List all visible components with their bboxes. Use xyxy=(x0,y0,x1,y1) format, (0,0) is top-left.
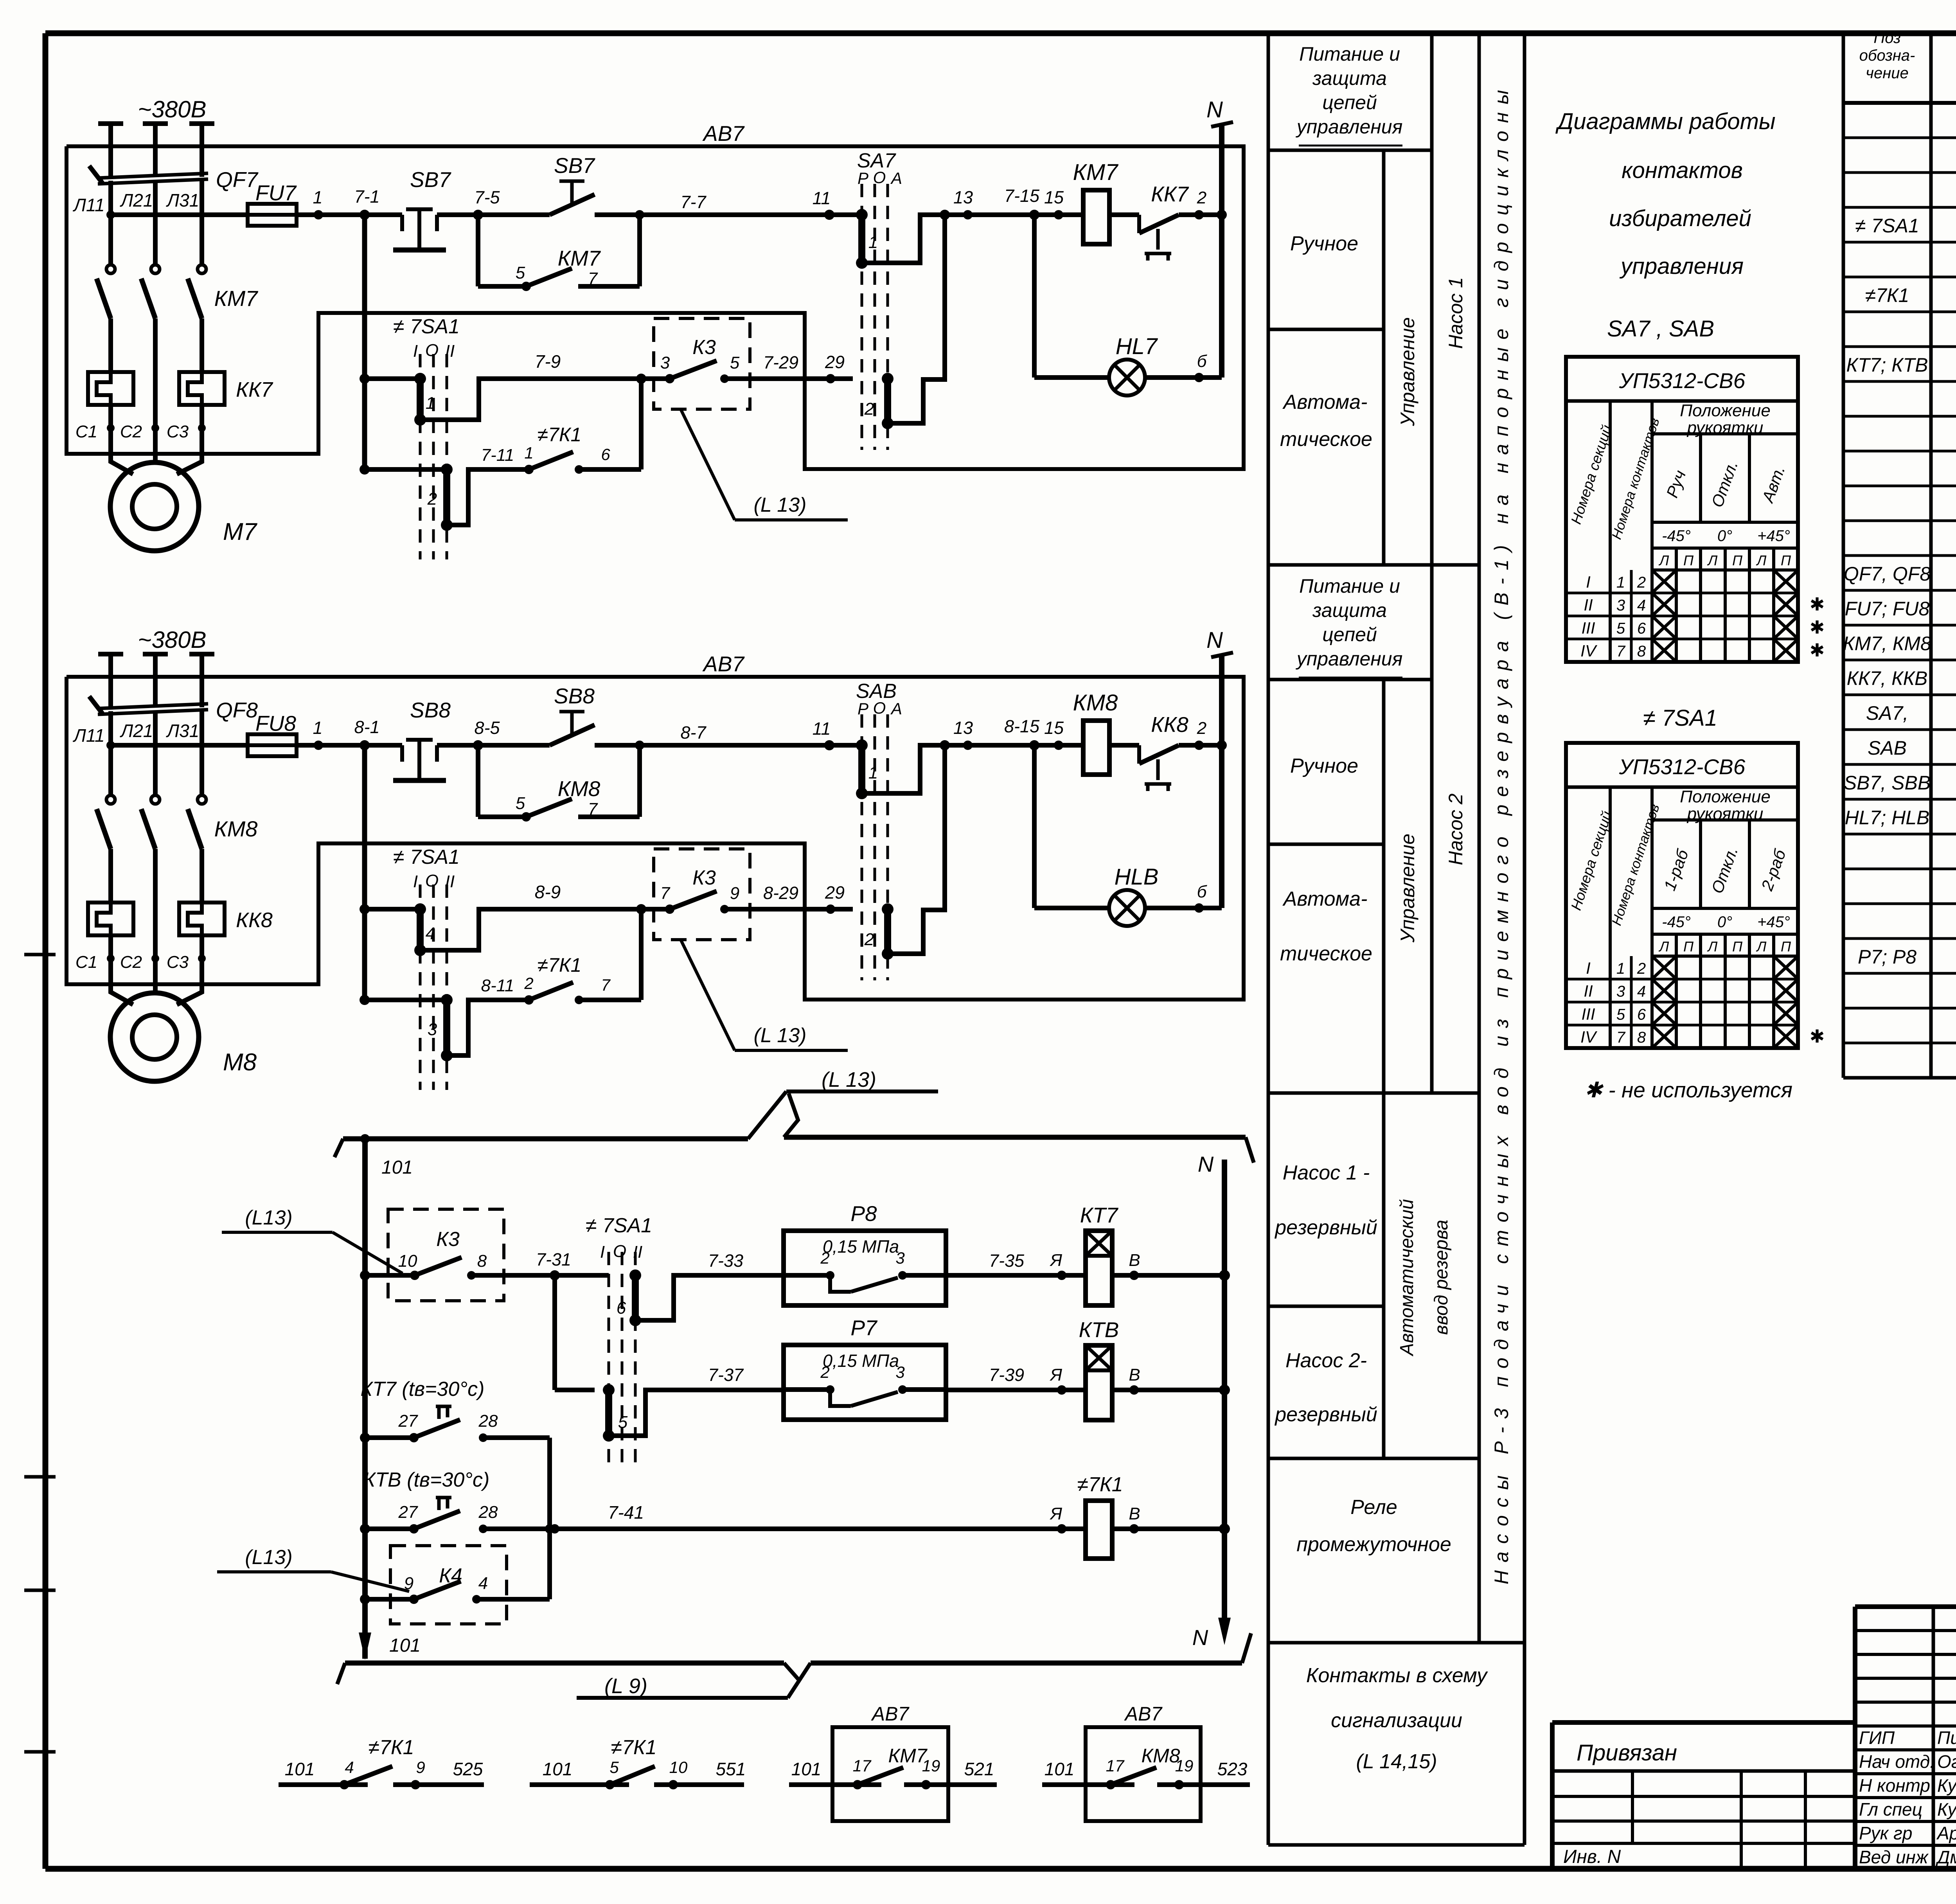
svg-text:Дмитриева: Дмитриева xyxy=(1935,1847,1956,1867)
svg-text:17: 17 xyxy=(1106,1757,1125,1775)
svg-text:✱: ✱ xyxy=(1810,640,1825,660)
trunk 8-1 down xyxy=(362,745,367,1000)
thermal relay heaters КК8 xyxy=(88,903,133,935)
svg-text:АВ7: АВ7 xyxy=(1124,1703,1163,1725)
wire 7-41 to relay 7K1 xyxy=(550,1524,559,1534)
svg-text:ввод резерва: ввод резерва xyxy=(1431,1220,1452,1335)
svg-text:SА7 , SАВ: SА7 , SАВ xyxy=(1607,316,1714,342)
7SA1 contact upper (4) xyxy=(365,907,420,912)
svg-text:б: б xyxy=(1197,882,1208,901)
junction node 13 area xyxy=(940,740,950,750)
svg-text:цепей: цепей xyxy=(1322,624,1377,645)
svg-text:7: 7 xyxy=(1616,643,1626,660)
svg-text:КМ8: КМ8 xyxy=(558,777,600,801)
svg-text:1: 1 xyxy=(868,763,878,782)
svg-text:Инв. N: Инв. N xyxy=(1563,1846,1621,1867)
svg-text:Диаграммы работы: Диаграммы работы xyxy=(1555,109,1775,134)
signal lamp HL7 xyxy=(1034,375,1109,380)
svg-text:КК8: КК8 xyxy=(236,908,273,932)
svg-text:КМ7: КМ7 xyxy=(1073,160,1119,185)
svg-text:QF7, QF8: QF7, QF8 xyxy=(1844,563,1931,585)
svg-text:I: I xyxy=(600,1242,605,1262)
svg-text:29: 29 xyxy=(825,352,845,372)
svg-text:Р: Р xyxy=(858,169,868,187)
svg-text:7-39: 7-39 xyxy=(989,1365,1024,1385)
svg-text:✱: ✱ xyxy=(1810,617,1825,637)
relay coil ≠7K1 xyxy=(1086,1501,1112,1559)
node 1 (АВ7) xyxy=(314,741,323,750)
svg-text:QF8: QF8 xyxy=(216,698,258,722)
svg-text:тическое: тическое xyxy=(1280,942,1372,965)
wire contact1 loop xyxy=(862,745,945,793)
svg-text:А: А xyxy=(890,699,902,718)
svg-text:8-11: 8-11 xyxy=(481,976,514,995)
node 8-1 xyxy=(360,740,370,750)
svg-text:чение: чение xyxy=(1866,65,1908,82)
svg-text:521: 521 xyxy=(964,1759,994,1779)
svg-text:О: О xyxy=(873,699,886,717)
svg-text:1: 1 xyxy=(313,187,322,207)
svg-text:3: 3 xyxy=(1616,983,1625,1000)
selector SАВ contact 2 xyxy=(884,909,891,954)
svg-text:Контакты в схему: Контакты в схему xyxy=(1306,1664,1488,1687)
svg-text:0°: 0° xyxy=(1717,913,1732,931)
wire contact lower loop xyxy=(447,1000,529,1055)
svg-text:101: 101 xyxy=(381,1157,413,1178)
svg-text:II: II xyxy=(445,872,455,891)
svg-text:7: 7 xyxy=(601,976,611,994)
aux holding contact КМ8 xyxy=(476,745,480,817)
svg-text:резервный: резервный xyxy=(1274,1403,1377,1426)
svg-text:523: 523 xyxy=(1217,1759,1248,1779)
svg-text:Л: Л xyxy=(1659,552,1669,568)
svg-text:Пивторак: Пивторак xyxy=(1937,1728,1956,1748)
svg-text:6: 6 xyxy=(1637,620,1646,637)
svg-text:Н контр: Н контр xyxy=(1859,1775,1930,1796)
node 2 xyxy=(1194,741,1204,750)
svg-text:Положение: Положение xyxy=(1680,401,1771,420)
svg-text:П: П xyxy=(1781,552,1791,568)
svg-text:≠7К1: ≠7К1 xyxy=(1865,284,1909,306)
svg-text:К3: К3 xyxy=(692,336,716,359)
wire contact upper loop xyxy=(420,909,641,950)
wire parallel branch right xyxy=(547,1438,552,1599)
svg-text:≠7К1: ≠7К1 xyxy=(368,1736,414,1759)
svg-text:8-5: 8-5 xyxy=(474,718,500,738)
svg-text:КТ7; КТВ: КТ7; КТВ xyxy=(1846,354,1928,376)
svg-text:≠7К1: ≠7К1 xyxy=(1077,1473,1123,1496)
svg-text:управления: управления xyxy=(1296,116,1403,138)
svg-text:13: 13 xyxy=(953,718,973,738)
svg-text:КТ7: КТ7 xyxy=(1080,1203,1119,1227)
wire rail to node 11 (АВ7) xyxy=(640,743,862,748)
svg-text:SВ7, SВВ: SВ7, SВВ xyxy=(1844,772,1931,794)
svg-text:17: 17 xyxy=(853,1757,872,1775)
svg-text:2: 2 xyxy=(427,489,437,509)
svg-text:Я: Я xyxy=(1050,1504,1062,1523)
vertical 7-31 to second rung xyxy=(552,1275,557,1390)
svg-text:5: 5 xyxy=(618,1413,628,1432)
svg-text:N: N xyxy=(1206,627,1223,653)
svg-text:Я: Я xyxy=(1050,1251,1062,1270)
svg-text:избирателей: избирателей xyxy=(1609,206,1751,231)
svg-text:8-9: 8-9 xyxy=(535,882,561,902)
node 7-5 xyxy=(473,210,483,220)
svg-text:С1: С1 xyxy=(76,953,97,972)
svg-text:2: 2 xyxy=(1197,719,1206,738)
wire contact lower loop xyxy=(447,469,529,525)
svg-text:13: 13 xyxy=(953,187,973,207)
svg-text:7-37: 7-37 xyxy=(708,1365,744,1385)
svg-text:П: П xyxy=(1683,939,1694,955)
wire trunk 101 (circuit 3) xyxy=(362,1139,368,1659)
node 11 xyxy=(824,210,834,220)
svg-text:SВ7: SВ7 xyxy=(554,153,595,178)
svg-text:Р8: Р8 xyxy=(850,1201,877,1226)
svg-text:HL7: HL7 xyxy=(1116,334,1158,359)
svg-text:Р7: Р7 xyxy=(850,1316,878,1340)
svg-text:4: 4 xyxy=(1637,983,1646,1000)
fuse FU7 xyxy=(248,204,297,226)
svg-text:С2: С2 xyxy=(120,422,142,441)
svg-text:~380В: ~380В xyxy=(138,627,206,653)
svg-text:2: 2 xyxy=(820,1249,829,1267)
svg-text:8-29: 8-29 xyxy=(763,883,798,903)
svg-text:28: 28 xyxy=(478,1503,498,1522)
svg-text:П: П xyxy=(1683,552,1694,568)
svg-text:≠7К1: ≠7К1 xyxy=(538,424,582,446)
node 11 xyxy=(824,740,834,750)
svg-text:защита: защита xyxy=(1312,599,1387,621)
start button SВ7 xyxy=(478,212,550,217)
svg-text:Поз: Поз xyxy=(1873,29,1900,47)
svg-text:КК7: КК7 xyxy=(1151,182,1189,206)
svg-text:Нач отд.: Нач отд. xyxy=(1859,1751,1935,1772)
svg-text:6: 6 xyxy=(1637,1006,1646,1023)
svg-text:4: 4 xyxy=(478,1574,488,1593)
7SA1 contact upper (1) xyxy=(365,376,420,381)
svg-text:(L 9): (L 9) xyxy=(604,1674,647,1698)
control rail wire (АВ7) xyxy=(111,743,248,748)
svg-text:КМ8: КМ8 xyxy=(1073,690,1118,716)
svg-text:101: 101 xyxy=(543,1759,573,1779)
svg-text:11: 11 xyxy=(813,188,831,208)
wire contact1 loop xyxy=(862,215,945,263)
svg-text:С3: С3 xyxy=(167,953,189,972)
node 2 xyxy=(1194,210,1204,219)
motor М8 xyxy=(111,958,133,1005)
riser to selector lower contact (SА7) xyxy=(893,215,945,423)
trunk 7-1 down xyxy=(362,215,367,469)
wire stop to 7-5 xyxy=(437,212,478,217)
svg-text:3: 3 xyxy=(895,1249,904,1267)
svg-text:101: 101 xyxy=(285,1759,315,1779)
svg-text:Л11: Л11 xyxy=(72,725,104,746)
svg-text:(L13): (L13) xyxy=(245,1206,292,1229)
svg-text:1: 1 xyxy=(313,718,322,738)
svg-text:27: 27 xyxy=(398,1503,418,1522)
svg-text:III: III xyxy=(1581,1005,1595,1023)
bus (L9) bottom with break xyxy=(337,1663,345,1684)
svg-text:Р: Р xyxy=(858,699,868,718)
time relay coil КТ7 xyxy=(1086,1231,1112,1305)
svg-text:9: 9 xyxy=(416,1758,425,1776)
svg-text:I: I xyxy=(413,342,418,361)
svg-text:Рук гр: Рук гр xyxy=(1859,1823,1912,1843)
motor terminals C1 C2 C3 (М8) xyxy=(107,955,115,962)
svg-text:6: 6 xyxy=(617,1298,626,1318)
svg-text:8-15: 8-15 xyxy=(1004,716,1040,736)
svg-text:1: 1 xyxy=(1616,574,1625,591)
svg-text:101: 101 xyxy=(791,1759,822,1779)
relay contact K3 (3-5) xyxy=(654,318,750,409)
svg-text:КТВ: КТВ xyxy=(1079,1318,1119,1342)
svg-text:15: 15 xyxy=(1044,187,1064,207)
privyazan table xyxy=(1552,1720,1855,1725)
svg-text:19: 19 xyxy=(922,1757,940,1775)
panel box АВ7 xyxy=(67,677,1244,1000)
svg-text:2: 2 xyxy=(820,1363,829,1381)
svg-text:1: 1 xyxy=(524,444,533,462)
svg-text:Л: Л xyxy=(1707,939,1718,955)
svg-text:✱: ✱ xyxy=(1810,594,1825,615)
svg-text:28: 28 xyxy=(478,1411,498,1431)
svg-text:≠ 7SА1: ≠ 7SА1 xyxy=(393,315,460,338)
svg-text:III: III xyxy=(1581,618,1595,637)
svg-text:2: 2 xyxy=(1197,188,1206,207)
contactor main contacts КМ8 xyxy=(97,809,111,849)
svg-text:3: 3 xyxy=(895,1363,904,1381)
svg-text:SВ8: SВ8 xyxy=(554,684,595,708)
svg-text:М8: М8 xyxy=(223,1049,257,1076)
selector ≠7SA1 dashed (АВ7) xyxy=(419,354,422,559)
aux holding contact КМ7 xyxy=(476,215,480,286)
svg-text:7-15: 7-15 xyxy=(1004,186,1040,206)
svg-text:О: О xyxy=(613,1242,626,1261)
svg-text:525: 525 xyxy=(453,1759,483,1779)
svg-text:ГИП: ГИП xyxy=(1859,1728,1895,1748)
svg-text:✱ - не используется: ✱ - не используется xyxy=(1584,1078,1792,1102)
svg-text:II: II xyxy=(1584,596,1593,614)
svg-text:Насос 1: Насос 1 xyxy=(1445,277,1467,349)
relay contact K3 (7-9) xyxy=(654,849,750,940)
riser to selector lower contact (SАВ) xyxy=(893,745,945,954)
svg-text:~380В: ~380В xyxy=(138,96,206,122)
svg-text:FU8: FU8 xyxy=(255,711,296,735)
svg-text:КМ8: КМ8 xyxy=(1142,1745,1180,1767)
svg-text:Управление: Управление xyxy=(1397,834,1418,943)
svg-text:II: II xyxy=(633,1242,642,1262)
svg-text:2: 2 xyxy=(864,399,874,419)
svg-text:УП5312-СВ6: УП5312-СВ6 xyxy=(1619,755,1746,779)
border frame xyxy=(45,31,1956,36)
selector switch SАВ dashed lines xyxy=(861,714,863,980)
svg-text:5: 5 xyxy=(516,263,525,282)
svg-text:В: В xyxy=(1129,1504,1140,1523)
pressure gauge Р8 xyxy=(784,1231,946,1305)
svg-text:В: В xyxy=(1129,1365,1140,1384)
svg-text:защита: защита xyxy=(1312,67,1387,89)
7SA1 contact lower (3) xyxy=(360,995,370,1005)
svg-text:10: 10 xyxy=(669,1758,688,1776)
parts table row lines xyxy=(1843,137,1956,139)
svg-text:КМ8: КМ8 xyxy=(214,816,258,841)
svg-text:0,15 МПа: 0,15 МПа xyxy=(823,1351,899,1371)
svg-text:-45°: -45° xyxy=(1662,527,1691,545)
contactor coil КМ7 xyxy=(1083,190,1109,244)
svg-text:2: 2 xyxy=(524,974,533,992)
svg-text:19: 19 xyxy=(1175,1757,1194,1775)
motor terminals C1 C2 C3 (М7) xyxy=(107,424,115,432)
svg-text:Автома-: Автома- xyxy=(1282,888,1368,910)
start button SВ8 xyxy=(478,743,550,748)
svg-text:Л: Л xyxy=(1707,552,1718,568)
selector ≠7SA1 dashed (АВ7) xyxy=(419,885,422,1090)
svg-text:КТ7 (tв=30°с): КТ7 (tв=30°с) xyxy=(360,1378,484,1401)
svg-text:В: В xyxy=(1129,1251,1140,1270)
svg-text:(L13): (L13) xyxy=(245,1546,292,1569)
svg-text:27: 27 xyxy=(398,1411,418,1431)
7SA1 contact lower (2) xyxy=(360,464,370,475)
svg-text:КМ7: КМ7 xyxy=(558,246,601,270)
svg-text:8: 8 xyxy=(477,1251,487,1271)
svg-text:7-29: 7-29 xyxy=(763,352,798,372)
svg-text:7-9: 7-9 xyxy=(535,351,561,372)
svg-text:N: N xyxy=(1192,1625,1208,1650)
svg-text:Арнаутова: Арнаутова xyxy=(1936,1823,1956,1843)
svg-text:5: 5 xyxy=(730,353,740,372)
svg-text:управления: управления xyxy=(1296,648,1403,670)
circuit breaker QF8 xyxy=(98,704,208,708)
stop button SВ8 xyxy=(400,745,404,762)
svg-text:≠7К1: ≠7К1 xyxy=(611,1736,656,1759)
svg-text:I: I xyxy=(413,872,418,891)
svg-text:IV: IV xyxy=(1580,642,1598,660)
interlock contact ≠7K1 (2-7) xyxy=(524,995,534,1005)
svg-text:5: 5 xyxy=(1616,620,1625,637)
wire contact 5 loop xyxy=(609,1390,784,1436)
svg-text:II: II xyxy=(1584,982,1593,1000)
svg-text:Насос 1 -: Насос 1 - xyxy=(1283,1161,1370,1184)
svg-text:1: 1 xyxy=(1616,960,1625,977)
svg-text:2: 2 xyxy=(1637,574,1646,591)
svg-text:Питание и: Питание и xyxy=(1299,575,1400,597)
leader line to (L13) from K3 xyxy=(681,409,735,520)
svg-text:7-5: 7-5 xyxy=(474,187,500,207)
svg-text:П: П xyxy=(1781,939,1791,955)
svg-text:7: 7 xyxy=(1616,1029,1626,1046)
wire 29 to contact 2 xyxy=(831,376,853,381)
svg-text:М7: М7 xyxy=(223,518,258,545)
svg-text:(L 14,15): (L 14,15) xyxy=(1356,1750,1437,1773)
svg-text:О: О xyxy=(873,168,886,187)
svg-text:А: А xyxy=(890,169,902,187)
thermal relay heaters КК7 xyxy=(88,372,133,405)
svg-text:3: 3 xyxy=(660,353,670,372)
selector SА7 contact 2 xyxy=(884,379,891,423)
svg-text:7-1: 7-1 xyxy=(354,187,379,207)
svg-text:FU7; FU8: FU7; FU8 xyxy=(1845,598,1930,620)
control rail wire (АВ7) xyxy=(111,212,248,217)
svg-text:С1: С1 xyxy=(76,422,97,441)
svg-text:(L 13): (L 13) xyxy=(754,1024,807,1047)
lamp branch riser (HL7) xyxy=(1029,210,1039,220)
svg-text:3: 3 xyxy=(1616,597,1625,614)
svg-text:10: 10 xyxy=(398,1251,417,1271)
svg-text:КК8: КК8 xyxy=(1151,712,1188,737)
relay contact K4 (9-4) in dashed box xyxy=(390,1546,507,1624)
svg-text:управления: управления xyxy=(1619,254,1744,279)
table box УП5312-СВ6 (SA7,SAB) xyxy=(1566,357,1798,662)
svg-text:HLВ: HLВ xyxy=(1115,864,1159,890)
svg-text:Л31: Л31 xyxy=(166,721,200,741)
node 7-1 xyxy=(360,210,370,220)
svg-text:Автома-: Автома- xyxy=(1282,391,1368,414)
label table verticals xyxy=(1267,33,1270,1845)
svg-text:УП5312-СВ6: УП5312-СВ6 xyxy=(1619,369,1746,393)
svg-text:АВ7: АВ7 xyxy=(871,1703,910,1725)
svg-text:3: 3 xyxy=(428,1020,437,1039)
svg-text:N: N xyxy=(1198,1152,1214,1176)
wire start to rail xyxy=(595,212,640,217)
node 8-5 xyxy=(473,740,483,750)
svg-text:2: 2 xyxy=(1637,960,1646,977)
svg-text:N: N xyxy=(1206,97,1223,122)
svg-text:П: П xyxy=(1732,552,1743,568)
svg-text:б: б xyxy=(1197,352,1208,371)
svg-text:С3: С3 xyxy=(167,422,189,441)
wire 29 to contact 2 xyxy=(831,907,853,912)
svg-text:11: 11 xyxy=(813,719,831,739)
svg-text:7: 7 xyxy=(660,884,671,903)
svg-text:SАВ: SАВ xyxy=(1868,737,1907,759)
wire contact 6 loop xyxy=(635,1275,784,1320)
contactor main contacts КМ7 xyxy=(97,279,111,318)
svg-text:тическое: тическое xyxy=(1280,428,1372,451)
svg-text:7-41: 7-41 xyxy=(608,1502,644,1523)
svg-text:29: 29 xyxy=(825,883,845,903)
pressure gauge Р7 xyxy=(784,1345,946,1420)
wire contact upper loop xyxy=(420,379,641,420)
svg-text:8-7: 8-7 xyxy=(680,723,707,743)
svg-text:551: 551 xyxy=(716,1759,746,1779)
svg-text:4: 4 xyxy=(426,924,435,943)
svg-text:≠ 7SА1: ≠ 7SА1 xyxy=(1643,705,1717,731)
svg-text:Л21: Л21 xyxy=(120,721,153,741)
svg-text:Огурцов: Огурцов xyxy=(1937,1751,1956,1772)
svg-text:9: 9 xyxy=(730,884,739,903)
svg-text:IV: IV xyxy=(1580,1028,1598,1046)
svg-text:промежуточное: промежуточное xyxy=(1296,1533,1451,1556)
motor М7 xyxy=(111,428,133,474)
wire stop to 7-5 xyxy=(437,743,478,748)
svg-text:≠ 7SА1: ≠ 7SА1 xyxy=(393,846,460,868)
svg-text:5: 5 xyxy=(609,1758,619,1776)
svg-text:Ручное: Ручное xyxy=(1290,755,1358,777)
svg-text:Насос 2: Насос 2 xyxy=(1445,793,1467,865)
svg-text:HL7; НLВ: HL7; НLВ xyxy=(1845,807,1930,829)
svg-text:Вед инж: Вед инж xyxy=(1859,1847,1929,1867)
svg-text:КК7: КК7 xyxy=(236,378,273,401)
svg-text:АВ7: АВ7 xyxy=(702,652,745,676)
panel box АВ7 xyxy=(67,146,1244,469)
svg-text:7-7: 7-7 xyxy=(680,192,707,212)
svg-text:SВ7: SВ7 xyxy=(410,167,451,192)
bus 101 from (L13) with break xyxy=(334,1139,343,1157)
svg-text:SА7,: SА7, xyxy=(1866,702,1908,724)
svg-text:К3: К3 xyxy=(436,1228,460,1251)
wire fuse to node xyxy=(297,743,402,748)
